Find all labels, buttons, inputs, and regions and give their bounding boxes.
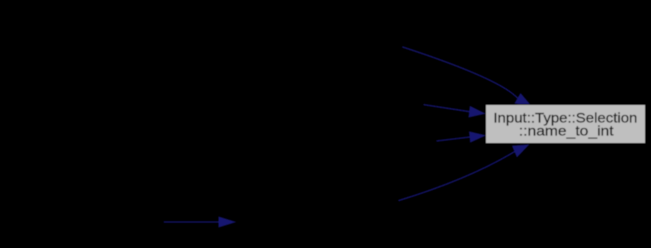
wire: edge from caller D (bottom) to name_to_int xyxy=(399,151,515,200)
wire: edge from caller A (top) to name_to_int xyxy=(402,47,518,99)
arrowhead of edge D xyxy=(513,145,528,156)
wire: edge from caller B (upper middle) to name_to_int xyxy=(424,105,470,112)
wire: horizontal edge between hidden caller nodes xyxy=(164,221,219,223)
node Input::Type::Selection::name_to_int xyxy=(486,105,646,144)
arrowhead of edge C xyxy=(470,132,485,142)
arrowhead of horizontal edge xyxy=(219,217,235,227)
arrowhead of edge A xyxy=(515,94,530,105)
wire: edge from caller C (lower middle) to name_to_int xyxy=(437,137,471,141)
svg-text:::name_to_int: ::name_to_int xyxy=(519,123,614,138)
arrowhead of edge B xyxy=(469,107,484,117)
